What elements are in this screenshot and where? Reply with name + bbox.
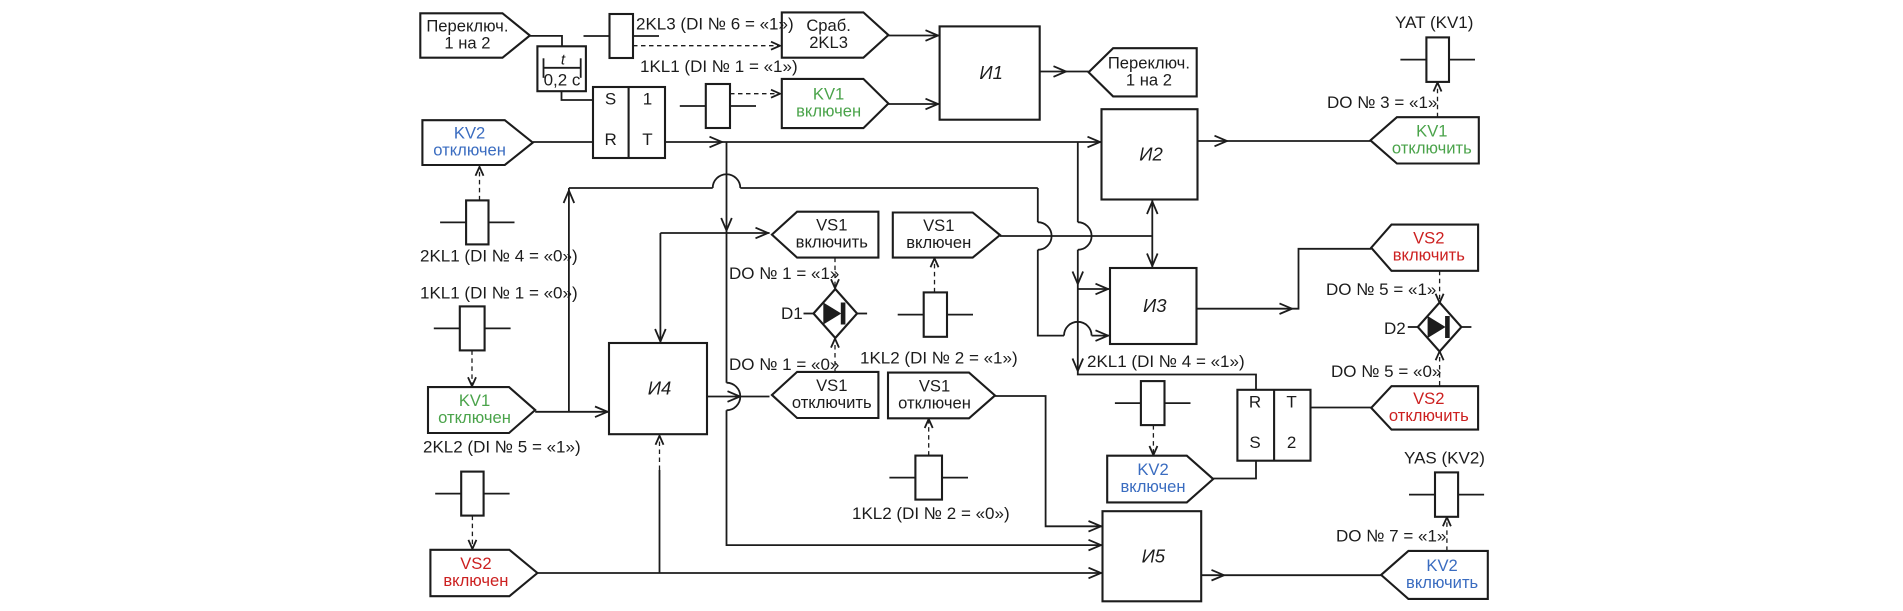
svg-text:отключен: отключен [433, 141, 506, 160]
svg-text:D1: D1 [781, 304, 803, 323]
wire: И5 output to KV2 включить [1201, 574, 1381, 576]
wire: И2 output to KV1 отключить [1198, 140, 1371, 142]
dashed link: 1KL1 coil to KV1 отключен [471, 350, 473, 385]
wire: KV1 включен to И1 input 2 [888, 103, 939, 105]
svg-text:включен: включен [906, 233, 971, 252]
block И2 [1102, 109, 1198, 199]
wire: trigger 2 output to VS2 отключить [1311, 407, 1372, 409]
pentagon Переключ 1 на 2 (right) [1089, 48, 1197, 96]
svg-text:YAS (KV2): YAS (KV2) [1404, 449, 1485, 468]
dashed link: VS2 включить to diode D2 [1439, 271, 1441, 302]
pentagon KV2 отключен [422, 120, 532, 165]
pentagon VS2 включен [430, 550, 537, 596]
svg-text:2KL2 (DI № 5 = «1»): 2KL2 (DI № 5 = «1») [423, 438, 581, 457]
svg-text:2KL1 (DI № 4 = «0»): 2KL1 (DI № 4 = «0») [420, 247, 578, 266]
pentagon KV1 отключен [428, 387, 535, 433]
dashed link: 2KL1 coil to KV2 отключен [479, 168, 481, 200]
pentagon KV1 включен [782, 79, 889, 128]
block И3 [1110, 268, 1197, 344]
dashed link: KV1 отключить to YAT coil [1437, 83, 1439, 117]
svg-text:отключить: отключить [792, 393, 872, 412]
svg-text:1KL2 (DI № 2 = «1»): 1KL2 (DI № 2 = «1») [860, 349, 1018, 368]
coil 2KL1 input (=1) [1141, 381, 1165, 425]
trigger R/S T/2 [1237, 390, 1310, 461]
dashed link: 2KL3 coil to Сраб 2KL3 [633, 45, 779, 47]
wire: T output of SR trigger to И2 input [665, 141, 1102, 143]
svg-text:отключен: отключен [438, 408, 511, 427]
diode D1 [814, 289, 858, 338]
svg-text:2KL3 (DI № 6 = «1»): 2KL3 (DI № 6 = «1») [636, 15, 794, 34]
pentagon VS1 включен [893, 213, 1000, 258]
svg-text:включить: включить [796, 233, 868, 252]
pentagon Сраб 2KL3 [782, 12, 889, 57]
coil 2KL1 input (=0) [466, 200, 488, 244]
dashed link: VS1 отключить to diode D1 [834, 345, 836, 372]
pentagon VS1 включить [772, 212, 879, 258]
pentagon VS1 отключить [772, 372, 879, 418]
svg-text:S: S [1249, 433, 1260, 452]
svg-text:включен: включен [443, 571, 508, 590]
svg-text:YAT (KV1): YAT (KV1) [1395, 13, 1473, 32]
svg-text:DO № 3 = «1»: DO № 3 = «1» [1327, 93, 1437, 112]
svg-text:1KL1 (DI № 1 = «0»): 1KL1 (DI № 1 = «0») [420, 284, 578, 303]
coil 2KL3 input [610, 14, 634, 58]
dashed link: VS1 включить to diode D1 [834, 258, 836, 287]
svg-text:0,2 с: 0,2 с [544, 71, 581, 90]
svg-text:включить: включить [1393, 246, 1465, 265]
wire: horizontal y=188 over to И3 input 2 [569, 187, 713, 189]
wire: timer output to S input of SR trigger [562, 91, 594, 100]
svg-text:T: T [642, 130, 652, 149]
wire: И4 output to VS1 отключить [707, 396, 770, 398]
svg-text:И5: И5 [1142, 545, 1166, 566]
block И1 [940, 26, 1040, 119]
coil 1KL1 input (=0) [460, 306, 485, 350]
coil YAS output [1435, 472, 1458, 516]
wire: vertical branch x=726.5 down to И5 input 2 [726, 142, 728, 383]
svg-text:включен: включен [1120, 477, 1185, 496]
wire: Сраб 2KL3 to И1 input 1 [888, 35, 939, 37]
svg-text:1 на 2: 1 на 2 [444, 34, 490, 53]
svg-text:включен: включен [796, 102, 861, 121]
svg-text:2KL3: 2KL3 [809, 33, 848, 52]
block И4 [609, 343, 707, 434]
wire: vertical x=1077.8 branch to И3 input 1 and R input of RS trigger 2 [1077, 142, 1079, 222]
dashed link: 2KL2 coil to VS2 включен [471, 516, 473, 548]
pentagon Переключ 1 на 2 (left) [420, 13, 530, 57]
wire: branch up from VS2 включен wire to И4 bottom [659, 470, 661, 573]
svg-text:И4: И4 [648, 378, 672, 399]
svg-text:1KL1 (DI № 1 = «1»): 1KL1 (DI № 1 = «1») [640, 57, 798, 76]
wire: KV2 включен to S input of trigger 2 [1213, 461, 1256, 479]
svg-text:R: R [1249, 393, 1261, 412]
coil 1KL2 input (=0) [915, 456, 942, 500]
svg-text:1: 1 [643, 90, 652, 109]
wire: KV1 отключен output to И4 input [535, 411, 609, 413]
svg-text:DO № 1 = «0»: DO № 1 = «0» [729, 355, 839, 374]
svg-text:И1: И1 [979, 62, 1003, 83]
wire: Переключ 1 на 2 output to timer [530, 36, 562, 46]
coil YAT output [1426, 37, 1449, 82]
wire: VS2 включен output to И5 input 3 [537, 572, 1102, 574]
pentagon KV2 включен [1107, 456, 1213, 503]
svg-text:R: R [604, 130, 616, 149]
svg-text:И2: И2 [1139, 143, 1163, 164]
dashed link: 1KL2 coil to VS1 включен [934, 259, 936, 292]
wire: branch to VS1 включить and И4 top input [660, 232, 769, 234]
dashed link: KV2 включить to YAS coil [1446, 518, 1448, 551]
dashed link: 1KL1 coil to KV1 включен [730, 93, 779, 95]
svg-text:DO № 1 = «1»: DO № 1 = «1» [729, 264, 839, 283]
svg-text:DO № 5 = «1»: DO № 5 = «1» [1326, 280, 1436, 299]
timer 0,2 c [537, 46, 586, 91]
dashed link: 2KL1 coil to KV2 включен [1152, 425, 1154, 454]
svg-text:T: T [1286, 393, 1296, 412]
svg-text:2KL1 (DI № 4 = «1»): 2KL1 (DI № 4 = «1») [1087, 352, 1245, 371]
pentagon VS1 отключен [888, 373, 995, 419]
wire: VS1 отключен output to И5 input 1 [995, 396, 1103, 526]
trigger S/R 1/T [593, 87, 665, 158]
svg-text:отключить: отключить [1392, 138, 1472, 157]
svg-text:D2: D2 [1384, 319, 1406, 338]
coil 2KL2 input [461, 472, 483, 516]
svg-text:1KL2 (DI № 2 = «0»): 1KL2 (DI № 2 = «0») [852, 504, 1010, 523]
pentagon KV1 отключить [1370, 117, 1478, 163]
coil 1KL2 input (=1) [924, 292, 947, 336]
pentagon VS2 отключить [1371, 386, 1478, 429]
svg-text:1 на 2: 1 на 2 [1126, 70, 1172, 89]
svg-text:2: 2 [1287, 433, 1296, 452]
block И5 [1103, 511, 1202, 601]
wire: KV2 отключен to R input of SR trigger [533, 141, 593, 143]
svg-text:отключить: отключить [1389, 406, 1469, 425]
dashed link: VS2 отключить to diode D2 [1439, 357, 1441, 386]
wire: VS1 включен output to И2/И3 link [1000, 235, 1152, 237]
wire: И1 output to Переключ 1 на 2 [1040, 71, 1089, 73]
diode D2 [1418, 303, 1462, 352]
wire: KV1 отключен feedback up to horizontal y=188 [568, 188, 570, 412]
svg-text:S: S [605, 90, 616, 109]
svg-text:DO № 7 = «1»: DO № 7 = «1» [1336, 527, 1446, 546]
svg-text:включить: включить [1406, 573, 1478, 592]
svg-text:DO № 5 = «0»: DO № 5 = «0» [1331, 362, 1441, 381]
svg-text:И3: И3 [1143, 295, 1167, 316]
wire: И3 output to VS2 включить [1197, 249, 1372, 309]
svg-text:отключен: отключен [898, 393, 971, 412]
pentagon VS2 включить [1371, 225, 1478, 271]
pentagon KV2 включить [1381, 551, 1488, 599]
coil 1KL1 input (=1) [706, 84, 730, 128]
wire: И2 bottom link И3 top [1151, 200, 1153, 269]
dashed link: 1KL2 coil to VS1 отключен [928, 420, 930, 456]
